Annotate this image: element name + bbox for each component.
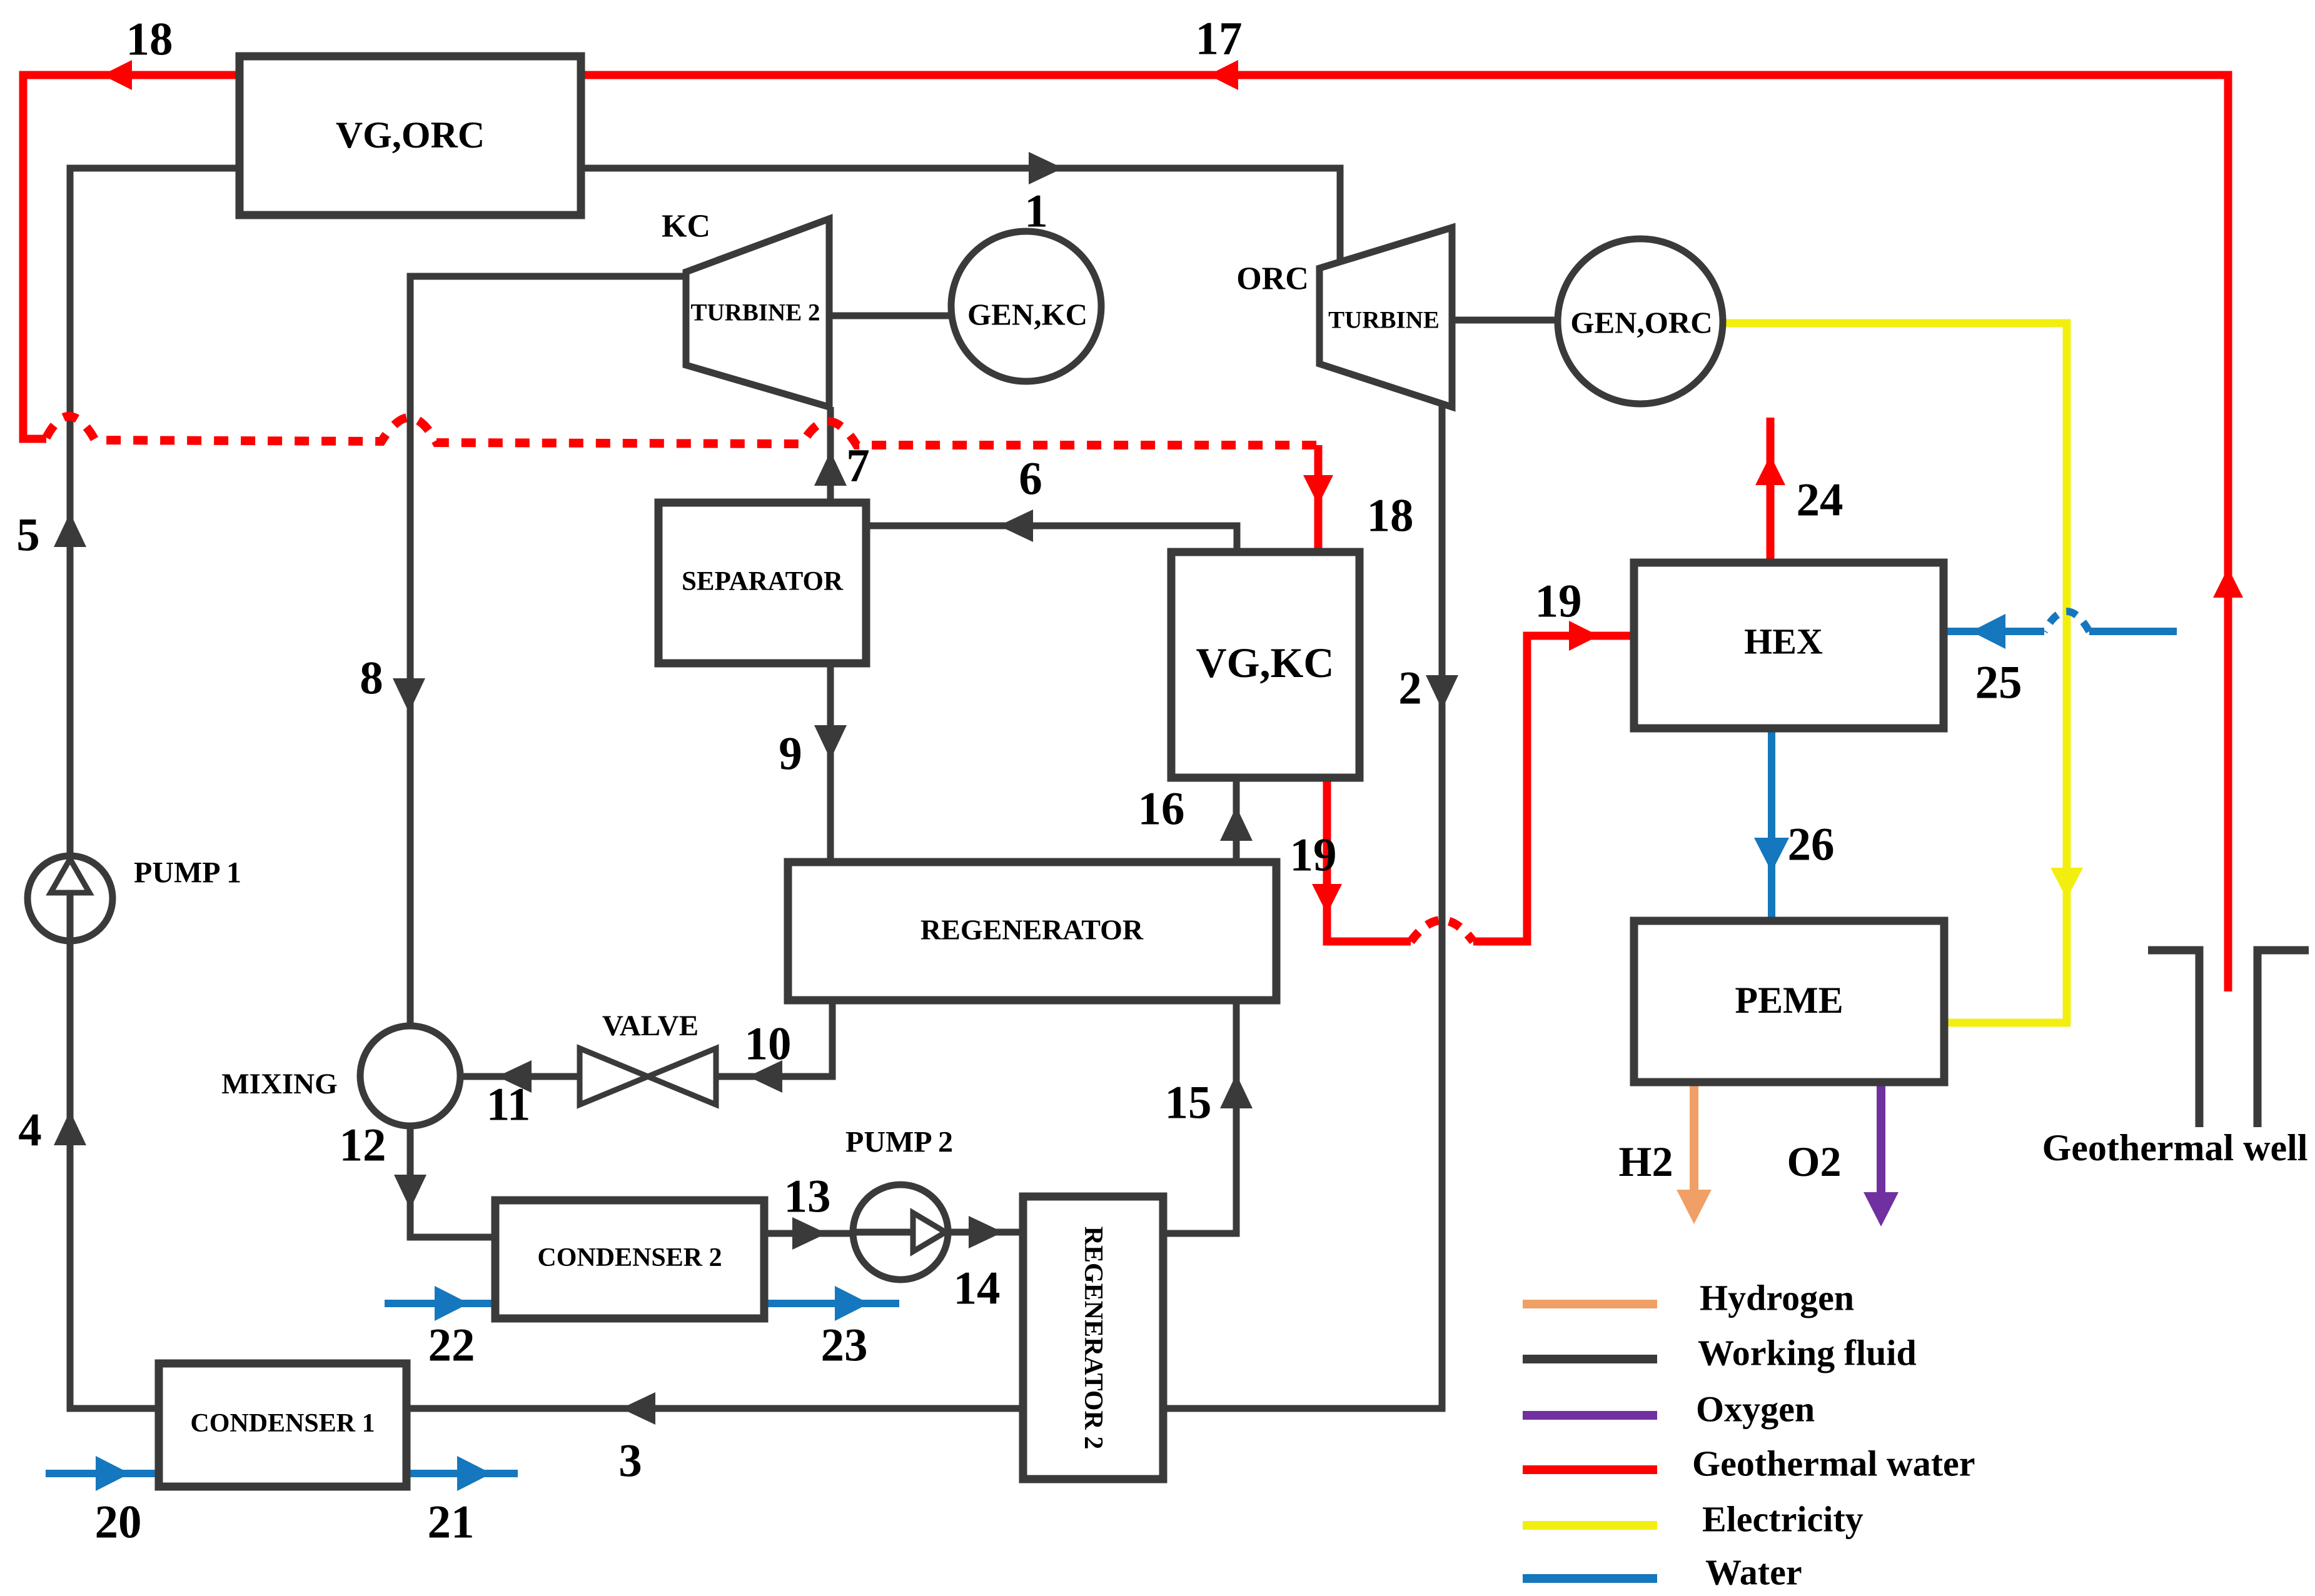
wire stream 21 (cooling water out, blue)	[406, 1470, 518, 1477]
svg-text:10: 10	[745, 1018, 792, 1070]
arrow stream 24 up	[1755, 455, 1785, 485]
wire stream 25 dashed hop over electricity line	[2044, 611, 2089, 631]
svg-text:19: 19	[1535, 576, 1582, 628]
svg-text:26: 26	[1788, 819, 1835, 871]
wire stream 17 (geothermal well to VG,ORC, red)	[581, 75, 2228, 991]
node 19 near HEX	[1535, 576, 1582, 628]
wire stream 14 (pump 2 to regenerator 2)	[944, 1229, 1025, 1236]
svg-text:TURBINE 2: TURBINE 2	[691, 299, 820, 326]
arrow stream 14	[969, 1216, 1003, 1248]
arrow stream 3	[621, 1392, 655, 1425]
svg-text:ORC: ORC	[1236, 261, 1309, 297]
svg-text:17: 17	[1196, 13, 1243, 65]
legend Hydrogen	[1523, 1278, 1854, 1318]
wire stream 12 (mixing to condenser 2)	[410, 1124, 497, 1237]
wire stream 26 (HEX to PEME, blue)	[1768, 730, 1775, 923]
wire stream 6 (VG,KC to separator)	[866, 526, 1237, 554]
svg-text:Water: Water	[1705, 1552, 1802, 1593]
arrow stream 26	[1754, 838, 1789, 872]
node 24	[1797, 474, 1843, 526]
wire stream 3 (regenerator 2 to condenser 1)	[406, 1405, 1025, 1412]
label KC	[662, 209, 710, 244]
node 13	[784, 1171, 831, 1223]
geothermal well symbol	[2148, 950, 2309, 1127]
pump PUMP 2	[853, 1185, 948, 1280]
svg-text:19: 19	[1290, 830, 1337, 881]
svg-text:VALVE: VALVE	[602, 1010, 699, 1042]
node 5	[16, 509, 40, 561]
generator GEN,ORC	[1558, 239, 1723, 404]
arrow stream 7	[814, 451, 847, 486]
node 9	[779, 728, 802, 780]
wire stream 18 dashed (geothermal reinjection, red dashed)	[46, 416, 1318, 445]
svg-text:PEME: PEME	[1735, 980, 1843, 1021]
node 10	[745, 1018, 792, 1070]
svg-text:13: 13	[784, 1171, 831, 1223]
generator GEN,KC	[951, 231, 1101, 381]
svg-text:TURBINE: TURBINE	[1328, 307, 1440, 334]
svg-text:14: 14	[954, 1263, 1001, 1315]
arrow electricity down	[2050, 868, 2083, 899]
node 1	[1024, 186, 1048, 238]
svg-text:4: 4	[18, 1105, 42, 1157]
legend Oxygen	[1523, 1389, 1815, 1430]
arrow H2 down	[1677, 1190, 1712, 1224]
heat exchanger VG,ORC	[240, 56, 581, 215]
node 26	[1788, 819, 1835, 871]
svg-text:1: 1	[1024, 186, 1048, 238]
node 12	[340, 1120, 386, 1172]
wire stream 18 solid left segment (VG,ORC outlet, red)	[23, 75, 240, 439]
arrow stream 23	[835, 1286, 869, 1321]
svg-text:VG,KC: VG,KC	[1196, 639, 1334, 686]
wire electricity GEN,ORC to PEME (yellow)	[1721, 323, 2070, 1023]
condenser CONDENSER 2	[495, 1200, 764, 1318]
label ORC	[1236, 261, 1309, 297]
wire stream 22 (cooling water in, blue)	[385, 1300, 497, 1307]
turbine TURBINE (ORC)	[1319, 228, 1452, 407]
node 17	[1196, 13, 1243, 65]
svg-text:H2: H2	[1619, 1138, 1673, 1185]
node 18 left	[126, 14, 173, 66]
svg-text:12: 12	[340, 1120, 386, 1172]
regenerator REGENERATOR 2	[1023, 1197, 1163, 1479]
arrow stream 10	[748, 1060, 782, 1093]
arrow stream 21	[457, 1456, 492, 1491]
arrow stream 12	[394, 1175, 426, 1209]
wire H2 outlet (orange)	[1690, 1084, 1698, 1191]
legend Water	[1523, 1552, 1802, 1593]
label PUMP 2	[845, 1126, 953, 1159]
svg-text:Working fluid: Working fluid	[1698, 1333, 1917, 1373]
svg-text:24: 24	[1797, 474, 1843, 526]
arrow stream 15	[1220, 1074, 1253, 1108]
arrow stream 22	[435, 1286, 469, 1321]
node 19 near VG,KC	[1290, 830, 1337, 881]
svg-text:22: 22	[428, 1320, 475, 1372]
svg-text:KC: KC	[662, 209, 710, 244]
separator SEPARATOR	[658, 503, 866, 663]
svg-text:18: 18	[126, 14, 173, 66]
label VALVE	[602, 1010, 699, 1042]
arrow stream 20	[96, 1456, 130, 1491]
wire stream 1 (VG,ORC to ORC turbine)	[581, 168, 1340, 266]
arrow stream 1	[1029, 152, 1063, 184]
svg-text:3: 3	[618, 1435, 642, 1487]
wire stream 19 dashed hop over stream 2	[1411, 920, 1473, 941]
condenser CONDENSER 1	[159, 1363, 406, 1487]
svg-text:O2: O2	[1787, 1138, 1842, 1185]
node 22	[428, 1320, 475, 1372]
pump PUMP 1	[28, 856, 113, 941]
svg-text:21: 21	[428, 1497, 475, 1548]
wire stream 20 (cooling water in, blue)	[46, 1470, 161, 1477]
arrow O2 down	[1864, 1192, 1899, 1227]
arrow stream 4	[54, 1111, 86, 1145]
svg-text:5: 5	[16, 509, 40, 561]
svg-text:23: 23	[821, 1320, 868, 1372]
node 3	[618, 1435, 642, 1487]
shaft ORC turbine to GEN,ORC	[1452, 317, 1563, 324]
svg-text:Geothermal well: Geothermal well	[2042, 1127, 2308, 1168]
arrow stream 19 down	[1312, 884, 1342, 914]
arrow stream 6	[999, 509, 1033, 542]
svg-text:SEPARATOR: SEPARATOR	[682, 567, 844, 596]
wire stream 8 (turbine 2 exhaust to mixing)	[410, 276, 686, 1028]
svg-text:20: 20	[95, 1497, 142, 1548]
wire stream 7 (separator to turbine 2)	[827, 407, 834, 504]
node 25	[1975, 657, 2022, 709]
svg-text:CONDENSER 1: CONDENSER 1	[190, 1409, 375, 1438]
arrow stream 17	[1208, 60, 1238, 90]
arrow stream 11	[497, 1060, 532, 1093]
node 18 right	[1367, 490, 1414, 542]
svg-text:8: 8	[360, 653, 383, 705]
label O2	[1787, 1138, 1842, 1185]
arrow stream 13	[792, 1217, 827, 1250]
wire stream 11 (valve to mixing)	[458, 1073, 582, 1080]
turbine TURBINE 2 (KC)	[686, 219, 829, 407]
wire stream 25 (water to HEX, blue)	[1945, 628, 2177, 635]
arrow stream 2	[1426, 675, 1458, 710]
node 6	[1019, 453, 1042, 505]
heat exchanger HEX	[1634, 563, 1944, 728]
wire stream 10 (regenerator to valve)	[715, 999, 832, 1077]
label PUMP 1	[134, 856, 241, 890]
arrow stream 18 left	[102, 60, 132, 90]
wire stream 15 (regenerator 2 to regenerator)	[1161, 1001, 1236, 1233]
label H2	[1619, 1138, 1673, 1185]
node 15	[1165, 1077, 1212, 1129]
arrow stream 25	[1971, 614, 2005, 649]
svg-text:Geothermal water: Geothermal water	[1692, 1443, 1975, 1484]
arrow stream 8	[393, 678, 425, 713]
electrolyzer PEME	[1634, 921, 1944, 1082]
wire stream 4-5 (condenser 1 to pump 1 to VG,ORC)	[70, 168, 240, 1408]
heat exchanger REGENERATOR	[788, 862, 1276, 1000]
valve VALVE	[580, 1048, 716, 1105]
node 7	[846, 440, 870, 492]
wire stream 9 (separator to regenerator)	[827, 663, 834, 864]
svg-text:Electricity: Electricity	[1702, 1499, 1864, 1540]
arrow stream 18 down	[1303, 475, 1333, 505]
svg-text:PUMP 1: PUMP 1	[134, 856, 241, 890]
svg-text:7: 7	[846, 440, 870, 492]
node 16	[1138, 783, 1185, 835]
node 14	[954, 1263, 1001, 1315]
svg-text:9: 9	[779, 728, 802, 780]
svg-text:GEN,ORC: GEN,ORC	[1570, 306, 1712, 340]
wire stream 19 (VG,KC to HEX, red)	[1327, 636, 1636, 941]
svg-text:Oxygen: Oxygen	[1696, 1389, 1815, 1430]
svg-text:HEX: HEX	[1744, 621, 1823, 662]
arrow stream 9	[814, 725, 847, 760]
svg-text:REGENERATOR 2: REGENERATOR 2	[1079, 1227, 1107, 1450]
wire stream 18 red arrow drop into VG,KC	[1314, 445, 1323, 554]
svg-text:15: 15	[1165, 1077, 1212, 1129]
node 23	[821, 1320, 868, 1372]
wire stream 13 (condenser 2 to pump 2)	[764, 1230, 857, 1237]
svg-text:11: 11	[487, 1079, 531, 1131]
node 8	[360, 653, 383, 705]
svg-text:18: 18	[1367, 490, 1414, 542]
svg-text:VG,ORC: VG,ORC	[336, 114, 485, 156]
arrow geothermal well up	[2213, 568, 2243, 598]
legend Working fluid	[1523, 1333, 1917, 1373]
label MIXING	[221, 1068, 337, 1100]
arrow stream 19 right	[1569, 621, 1599, 651]
legend Geothermal water	[1523, 1443, 1975, 1484]
wire O2 outlet (purple)	[1877, 1084, 1885, 1193]
wire stream 16 (regenerator to VG,KC)	[1233, 776, 1240, 862]
arrow stream 5	[54, 513, 86, 547]
svg-text:GEN,KC: GEN,KC	[967, 298, 1087, 332]
wire stream 2 (ORC turbine exhaust to regenerator 2)	[1161, 403, 1442, 1408]
heat exchanger VG,KC	[1171, 552, 1359, 778]
node 4	[18, 1105, 42, 1157]
svg-text:CONDENSER 2: CONDENSER 2	[537, 1243, 722, 1272]
label Geothermal well	[2042, 1127, 2308, 1168]
svg-text:2: 2	[1398, 663, 1422, 715]
svg-text:MIXING: MIXING	[221, 1068, 337, 1100]
shaft turbine 2 to GEN,KC	[829, 313, 957, 319]
node 2	[1398, 663, 1422, 715]
legend Electricity	[1523, 1499, 1864, 1540]
node 20	[95, 1497, 142, 1548]
svg-text:PUMP 2: PUMP 2	[845, 1126, 953, 1159]
wire stream 23 (cooling water out, blue)	[764, 1300, 899, 1307]
node 11	[487, 1079, 531, 1131]
wire stream 24 (HEX outlet, red)	[1767, 418, 1775, 565]
svg-text:REGENERATOR: REGENERATOR	[920, 914, 1144, 946]
svg-text:6: 6	[1019, 453, 1042, 505]
node 21	[428, 1497, 475, 1548]
svg-text:16: 16	[1138, 783, 1185, 835]
arrow stream 16	[1220, 806, 1253, 841]
svg-text:Hydrogen: Hydrogen	[1700, 1278, 1854, 1318]
mixing chamber MIXING	[360, 1026, 460, 1126]
svg-text:25: 25	[1975, 657, 2022, 709]
